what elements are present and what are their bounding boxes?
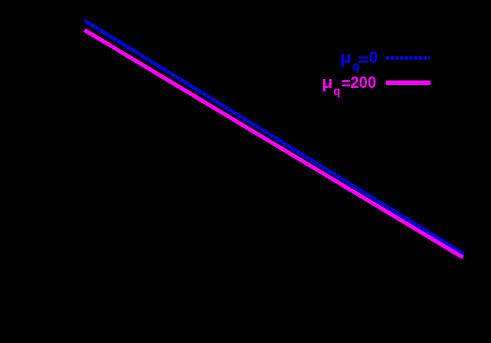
svg-text:q: q <box>333 86 340 98</box>
legend label mu_q=0 <box>340 49 378 73</box>
svg-text:=: = <box>358 52 368 70</box>
svg-text:μ: μ <box>340 49 351 67</box>
svg-text:200: 200 <box>351 74 377 92</box>
svg-text:0: 0 <box>369 49 378 67</box>
legend label mu_q=200 <box>322 74 376 98</box>
curve mu_q=200 (magenta solid) <box>85 30 464 258</box>
svg-text:μ: μ <box>322 74 333 92</box>
svg-text:=: = <box>341 75 350 93</box>
legend sample line mu_q=200 (magenta solid) <box>386 81 431 86</box>
legend sample line mu_q=0 (blue dashed) <box>386 56 430 60</box>
curve mu_q=0 (blue dashed) <box>85 21 465 255</box>
